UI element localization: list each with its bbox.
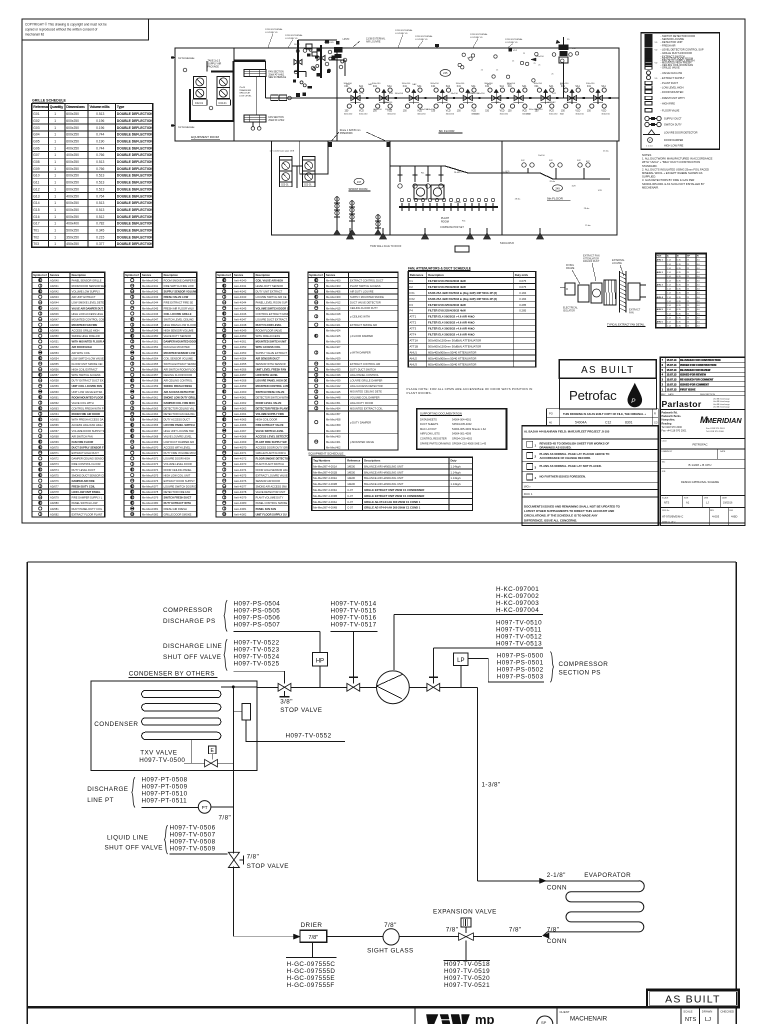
svg-text:FAN HIGH MOUNTED: FAN HIGH MOUNTED	[164, 345, 190, 349]
svg-text:Me-MecA/048: Me-MecA/048	[142, 323, 159, 327]
svg-text:AL BAJAH 444 BAHRAIN FIELD: M: AL BAJAH 444 BAHRAIN FIELD: MARJUFLEET P…	[524, 430, 610, 434]
svg-text:DAMPER AIR FIRE: DAMPER AIR FIRE	[72, 479, 95, 483]
svg-text:H097-TV-0507: H097-TV-0507	[170, 831, 216, 838]
svg-text:AeA-4/069: AeA-4/069	[234, 440, 247, 444]
svg-text:Symbol ref: Symbol ref	[125, 273, 139, 277]
svg-text:AD/081: AD/081	[50, 507, 59, 511]
svg-text:H097-TV-0510: H097-TV-0510	[496, 620, 542, 627]
svg-text:350x250: 350x250	[66, 235, 79, 239]
svg-text:300x150: 300x150	[387, 113, 396, 115]
svg-text:VALVE AIR DAMPER DUT: VALVE AIR DAMPER DUT	[72, 306, 104, 310]
svg-text:300x150: 300x150	[586, 83, 595, 85]
svg-text:Me-MecA/058: Me-MecA/058	[142, 379, 159, 383]
wire HP switch to pipe	[319, 666, 321, 687]
svg-text:19/02/16: 19/02/16	[723, 502, 733, 505]
svg-text:AD/052: AD/052	[50, 345, 59, 349]
svg-text:Me-MecA/070: Me-MecA/070	[142, 446, 159, 450]
svg-text:FAN: FAN	[657, 255, 662, 258]
svg-text:0.35: 0.35	[677, 305, 682, 307]
svg-text:Padworth Rd.: Padworth Rd.	[662, 412, 678, 415]
svg-text:COMPRESSOR: COMPRESSOR	[163, 607, 213, 614]
svg-text:0.513: 0.513	[96, 208, 104, 212]
svg-text:50x150: 50x150	[454, 202, 461, 204]
svg-text:SWITCH LEVEL CEILING: SWITCH LEVEL CEILING	[164, 317, 194, 321]
zone reference oval upper	[440, 70, 450, 77]
svg-text:AT-970/BVE/M-C: AT-970/BVE/M-C	[662, 515, 683, 519]
svg-text:Me-MecA/054: Me-MecA/054	[142, 356, 159, 360]
svg-text:AeA-4/070: AeA-4/070	[234, 446, 247, 450]
svg-text:Tel 0118 970 2000: Tel 0118 970 2000	[662, 426, 683, 429]
svg-text:15.07.13: 15.07.13	[667, 388, 677, 391]
svg-text:Fax 0118 970 2001: Fax 0118 970 2001	[706, 428, 725, 430]
svg-text:H097-PS-0500: H097-PS-0500	[497, 653, 544, 660]
svg-text:Me-MecA/042: Me-MecA/042	[142, 290, 159, 294]
suction line valve V3	[427, 683, 433, 691]
svg-text:1/2 condensate pipe 15/8: 1/2 condensate pipe 15/8	[270, 150, 295, 153]
svg-text:5: 5	[662, 369, 664, 372]
svg-text:600x250: 600x250	[66, 126, 79, 130]
svg-text:300x150: 300x150	[402, 83, 411, 85]
svg-text:14E00: 14E00	[347, 464, 355, 468]
pressure switch HP	[312, 653, 327, 667]
svg-text:ATT2: ATT2	[410, 321, 417, 325]
svg-text:H097-PT-0508: H097-PT-0508	[142, 776, 188, 783]
svg-text:- VALVE FAN LOW: - VALVE FAN LOW	[661, 71, 683, 75]
wire condenser internal drop	[232, 687, 234, 771]
svg-text:45004-005: 45004-005	[324, 42, 334, 44]
svg-text:DAMPER MOUNTED DOOR: DAMPER MOUNTED DOOR	[164, 340, 198, 344]
equipment room thick ducts	[190, 89, 234, 121]
svg-text:25: 25	[687, 268, 690, 270]
svg-text:Me-MecA/081: Me-MecA/081	[142, 507, 159, 511]
svg-text:DOUBLE DEFLECTION: DOUBLE DEFLECTION	[117, 126, 154, 130]
svg-text:A: A	[667, 255, 669, 258]
svg-text:copied or reproduced without t: copied or reproduced without the written…	[25, 28, 97, 32]
svg-text:GRILLE AE-074-04 AH 300 25kW C: GRILLE AE-074-04 AH 300 25kW C1 COND 1	[364, 506, 421, 510]
wire leader KC labels to compressor	[393, 615, 395, 670]
svg-text:12/38 EXTERNAL: 12/38 EXTERNAL	[505, 38, 523, 41]
svg-text:7/8": 7/8"	[446, 926, 459, 933]
svg-text:Petrofac: Petrofac	[569, 388, 617, 403]
svg-text:Me-Mec097-4-004A: Me-Mec097-4-004A	[313, 500, 337, 504]
svg-text:6: 6	[662, 364, 664, 367]
svg-text:mechanair ltd: mechanair ltd	[25, 33, 44, 37]
svg-text:LOUVRE VD: LOUVRE VD	[265, 32, 278, 34]
pipe expansion valve to evaporator outlet	[473, 936, 542, 938]
svg-text:0.512: 0.512	[96, 215, 104, 219]
svg-text:0.35: 0.35	[677, 293, 682, 295]
svg-text:Me-MecA/077: Me-MecA/077	[142, 484, 159, 488]
svg-text:LOUVRE DUCT EXTRACT: LOUVRE DUCT EXTRACT	[256, 317, 288, 321]
svg-text:1: 1	[54, 126, 56, 130]
svg-text:G04: G04	[33, 133, 39, 137]
svg-text:H-GC-097555C: H-GC-097555C	[287, 961, 336, 968]
svg-text:FILTER EV8 225/4/20/32 4kW: FILTER EV8 225/4/20/32 4kW	[428, 309, 466, 313]
svg-text:SA1: SA1	[549, 85, 554, 88]
svg-text:DATE: DATE	[720, 450, 726, 453]
svg-text:AeA-4/079: AeA-4/079	[234, 496, 247, 500]
main plant enclosure box	[175, 48, 619, 141]
svg-text:AD/048: AD/048	[50, 323, 59, 327]
node evaporator outlet conn arrow	[543, 933, 550, 938]
svg-text:150: 150	[345, 111, 350, 113]
svg-text:25: 25	[687, 322, 690, 324]
svg-text:PLANT SWITCH ACCESS: PLANT SWITCH ACCESS	[350, 284, 381, 288]
svg-text:GRILLE PLANT FLOOR A: GRILLE PLANT FLOOR A	[256, 451, 286, 455]
svg-text:A1: A1	[686, 501, 690, 505]
svg-text:H097-PT-0509: H097-PT-0509	[142, 783, 188, 790]
svg-text:PT: PT	[202, 805, 208, 810]
svg-text:AeA-4/041: AeA-4/041	[234, 284, 247, 288]
svg-text:CONTROL FRESH WITH P: CONTROL FRESH WITH P	[72, 407, 104, 411]
svg-text:4.0: 4.0	[697, 260, 701, 262]
svg-text:Me-MecA/041: Me-MecA/041	[142, 284, 159, 288]
svg-text:SMOKE LOW DUTY GRILL: SMOKE LOW DUTY GRILL	[164, 395, 197, 399]
svg-text:G03: G03	[33, 126, 39, 130]
svg-text:25: 25	[523, 53, 525, 55]
svg-text:600x250: 600x250	[66, 133, 79, 137]
svg-text:1: 1	[54, 242, 56, 246]
svg-text:AD/063: AD/063	[50, 407, 59, 411]
svg-text:H-GC-097555E: H-GC-097555E	[287, 975, 335, 982]
svg-text:SA1: SA1	[500, 85, 505, 88]
svg-text:0.513: 0.513	[96, 112, 104, 116]
svg-text:WITH MOUNTED FLOOR A: WITH MOUNTED FLOOR A	[72, 340, 105, 344]
svg-text:EXTRACT LOUVRE VALVE: EXTRACT LOUVRE VALVE	[256, 473, 288, 477]
svg-text:C-07: C-07	[347, 488, 353, 492]
svg-text:TRANSFER: TRANSFER	[239, 89, 251, 92]
svg-text:FIRST ISSUE: FIRST ISSUE	[680, 388, 696, 391]
svg-text:EXTRACT DOOR SUPPLY: EXTRACT DOOR SUPPLY	[164, 479, 196, 483]
svg-text:AS BUILT: AS BUILT	[665, 994, 721, 1006]
svg-text:Me-MecA/052: Me-MecA/052	[142, 345, 159, 349]
svg-text:Me-Mec/445: Me-Mec/445	[326, 390, 341, 394]
svg-text:Me-Mec097-4-001B: Me-Mec097-4-001B	[313, 470, 337, 474]
svg-text:Description: Description	[428, 273, 444, 277]
svg-text:FIRE EXTRACT VALVE: FIRE EXTRACT VALVE	[256, 423, 284, 427]
svg-text:DRAWINGS AS ISSUED.: DRAWINGS AS ISSUED.	[540, 445, 572, 449]
svg-text:1: 1	[54, 229, 56, 233]
svg-text:1: 1	[54, 187, 56, 191]
svg-text:4: 4	[535, 476, 537, 480]
svg-text:COIL SENSOR VOLUME: COIL SENSOR VOLUME	[164, 356, 194, 360]
svg-text:VD2: VD2	[513, 50, 518, 52]
svg-text:MECHENAIR.: MECHENAIR.	[642, 185, 659, 189]
svg-text:SWITCH FRESH DUCT: SWITCH FRESH DUCT	[164, 496, 192, 500]
svg-text:H097-PS-0501: H097-PS-0501	[497, 660, 544, 667]
symbol table 2	[124, 272, 198, 517]
svg-text:FAN SECTION: FAN SECTION	[268, 116, 284, 119]
svg-text:AD/055: AD/055	[50, 362, 59, 366]
wire LP switch to pipe	[460, 666, 462, 688]
svg-text:COIL LOUVRE GRILLE: COIL LOUVRE GRILLE	[164, 312, 192, 316]
svg-text:PETROFAC: PETROFAC	[692, 442, 707, 446]
svg-text:HIGH UNIT LOUVRE SWI: HIGH UNIT LOUVRE SWI	[164, 429, 194, 433]
svg-text:1.14: 1.14	[667, 280, 672, 282]
svg-text:PANEL CONTROL SMOKE: PANEL CONTROL SMOKE	[256, 501, 288, 505]
svg-text:F41: F41	[457, 86, 462, 88]
svg-text:Me-Mec/421: Me-Mec/421	[326, 323, 341, 327]
svg-text:DOUBLE DEFLECTION: DOUBLE DEFLECTION	[117, 235, 154, 239]
svg-text:CONDENSER BY OTHERS: CONDENSER BY OTHERS	[129, 671, 215, 678]
svg-text:28 dia: 28 dia	[584, 208, 590, 210]
svg-text:F41: F41	[462, 220, 466, 222]
symbol table 1	[32, 272, 106, 517]
svg-text:H-GC-097555D: H-GC-097555D	[287, 968, 336, 975]
svg-text:EXTRACT HIGH DUCT: EXTRACT HIGH DUCT	[72, 451, 100, 455]
svg-text:C02-01: C02-01	[195, 102, 204, 105]
petrofac drop logo	[628, 384, 642, 407]
svg-text:COPYRIGHT © This drawing is co: COPYRIGHT © This drawing is copyright an…	[25, 23, 107, 27]
svg-text:F41: F41	[552, 93, 557, 95]
svg-text:AD/070: AD/070	[50, 446, 59, 450]
svg-text:MOUNTED CEILING DETE: MOUNTED CEILING DETE	[350, 390, 382, 394]
svg-text:BALANCE AIR HANDLING UNIT: BALANCE AIR HANDLING UNIT	[364, 476, 404, 480]
svg-text:H097-TV-0516: H097-TV-0516	[331, 615, 377, 622]
svg-text:T02: T02	[33, 235, 39, 239]
svg-text:Reading: Reading	[662, 422, 672, 425]
svg-text:DOUBLE DEFLECTION: DOUBLE DEFLECTION	[117, 215, 154, 219]
svg-text:1/2 Condensate: 1/2 Condensate	[178, 57, 195, 60]
copyright note box	[22, 19, 149, 40]
svg-text:25: 25	[467, 58, 469, 60]
svg-text:SA1: SA1	[601, 85, 606, 88]
svg-text:F41: F41	[535, 86, 540, 88]
svg-text:CO: CO	[654, 422, 658, 425]
wire leader TV0522 group to stop valve	[234, 670, 285, 672]
svg-text:1.14kg/s: 1.14kg/s	[451, 482, 462, 486]
svg-text:LOUVRE DOOR HIGH: LOUVRE DOOR HIGH	[164, 457, 191, 461]
svg-text:DOUBLE DEFLECTION: DOUBLE DEFLECTION	[117, 194, 154, 198]
label group H097-TV-0514 group	[331, 601, 378, 632]
svg-text:- HIGH FIRE: - HIGH FIRE	[661, 101, 676, 105]
svg-text:F41: F41	[403, 86, 408, 88]
svg-text:AD/044: AD/044	[50, 301, 59, 305]
svg-text:Me-Mec/425: Me-Mec/425	[326, 334, 341, 338]
svg-text:FIRE CONTROL FLOOR: FIRE CONTROL FLOOR	[72, 462, 101, 466]
svg-text:SP004-005-4002: SP004-005-4002	[452, 422, 472, 426]
svg-text:- LEVEL DETECTOR CONTROL SUP: - LEVEL DETECTOR CONTROL SUP	[661, 47, 704, 51]
svg-text:AeA-4/071: AeA-4/071	[234, 451, 247, 455]
svg-text:AD/067: AD/067	[50, 429, 59, 433]
svg-text:DISCHARGE: DISCHARGE	[87, 786, 128, 793]
svg-text:H097-TV-0524: H097-TV-0524	[234, 654, 280, 661]
svg-text:DETECTOR SWITCH WITH: DETECTOR SWITCH WITH	[256, 395, 289, 399]
svg-text:AeA-4/049: AeA-4/049	[234, 329, 247, 333]
svg-text:1.14: 1.14	[667, 297, 672, 299]
svg-text:HIGH PANEL CONTROL: HIGH PANEL CONTROL	[350, 373, 379, 377]
svg-text:AD/046: AD/046	[50, 312, 59, 316]
svg-text:Me-MecA/063: Me-MecA/063	[142, 407, 159, 411]
svg-text:Me-Mec/415: Me-Mec/415	[326, 306, 341, 310]
svg-text:0.35: 0.35	[677, 322, 682, 324]
svg-text:AD/065: AD/065	[50, 418, 59, 422]
svg-text:FRESH AIR FLOOR VALV: FRESH AIR FLOOR VALV	[164, 306, 195, 310]
svg-text:DUCT VALVE DETECTOR: DUCT VALVE DETECTOR	[350, 301, 381, 305]
svg-text:0.345: 0.345	[96, 229, 104, 233]
svg-text:1: 1	[54, 201, 56, 205]
svg-text:0.513: 0.513	[96, 174, 104, 178]
svg-text:Me-MecA/073: Me-MecA/073	[142, 462, 159, 466]
svg-text:Reference: Reference	[347, 459, 361, 463]
svg-text:UNIT LEVEL FRESH FAN: UNIT LEVEL FRESH FAN	[256, 368, 287, 372]
svg-text:1: 1	[54, 153, 56, 157]
svg-text:VOLUME SWITCH DOOR C: VOLUME SWITCH DOOR C	[256, 306, 289, 310]
svg-text:H097-TV-0511: H097-TV-0511	[496, 627, 542, 634]
svg-text:REV: REV	[710, 510, 715, 512]
svg-text:FILTER EL4 30/25/32 +4.6 AIR: FILTER EL4 30/25/32 +4.6 AIR 40kO	[428, 327, 475, 331]
svg-text:F4: F4	[410, 309, 414, 313]
pump units	[414, 185, 427, 199]
svg-text:7/8": 7/8"	[308, 935, 318, 941]
svg-text:54004A: 54004A	[575, 421, 587, 425]
svg-text:2. ALL DUCTS INSULATED USING 2: 2. ALL DUCTS INSULATED USING 25mm FOIL F…	[642, 167, 709, 171]
svg-text:ROOM SMOKE DAMPER EX: ROOM SMOKE DAMPER EX	[164, 278, 198, 282]
grille schedule table	[32, 99, 154, 248]
svg-text:1: 1	[54, 194, 56, 198]
svg-text:1: 1	[54, 174, 56, 178]
svg-text:HIGH FRESH LOW FLOOR: HIGH FRESH LOW FLOOR	[164, 323, 196, 327]
svg-text:CONN: CONN	[547, 885, 567, 892]
label group compressor discharge PS	[163, 600, 280, 631]
svg-text:EXTRACT CONTROL AIR: EXTRACT CONTROL AIR	[350, 362, 380, 366]
svg-text:AD/058: AD/058	[50, 379, 59, 383]
svg-text:Me-Mec/454: Me-Mec/454	[326, 407, 341, 411]
svg-text:F41: F41	[587, 86, 592, 88]
svg-text:AeA-4/059: AeA-4/059	[234, 384, 247, 388]
svg-text:1.14: 1.14	[667, 260, 672, 262]
svg-text:AD/073: AD/073	[50, 462, 59, 466]
svg-text:25: 25	[687, 297, 690, 299]
pipe riser to evaporator inlet	[478, 880, 639, 882]
wire leader TV0506 labels to stop valve	[170, 853, 228, 855]
svg-text:C03-01: C03-01	[281, 185, 289, 187]
svg-text:DUTY FIRE VOLUME MOU: DUTY FIRE VOLUME MOU	[164, 451, 196, 455]
svg-text:AeA-4/066: AeA-4/066	[234, 423, 247, 427]
svg-text:CHECKED: CHECKED	[720, 1010, 734, 1014]
svg-text:12/38 EXTERNAL: 12/38 EXTERNAL	[285, 34, 303, 37]
svg-text:150 dia: 150 dia	[385, 109, 393, 111]
svg-text:AeA-4/045: AeA-4/045	[234, 306, 247, 310]
svg-text:500x600x1200mm 50dB(A) ATTENUA: 500x600x1200mm 50dB(A) ATTENUATOR	[428, 345, 481, 349]
svg-text:DRN: DRN	[704, 498, 709, 500]
svg-text:VOLUME COIL DAMPER: VOLUME COIL DAMPER	[350, 395, 380, 399]
svg-text:400x400: 400x400	[66, 222, 79, 226]
svg-text:8301: 8301	[625, 421, 633, 425]
svg-text:AeA-4/080: AeA-4/080	[234, 501, 247, 505]
svg-text:LJ: LJ	[706, 501, 709, 505]
svg-text:3: 3	[662, 379, 664, 382]
svg-text:DUCT SUPPLY SENSOR F: DUCT SUPPLY SENSOR F	[72, 446, 104, 450]
svg-text:Me-Mec097-4-002A: Me-Mec097-4-002A	[313, 476, 337, 480]
svg-text:600x250: 600x250	[66, 201, 79, 205]
svg-text:25: 25	[687, 272, 690, 274]
svg-text:AeA-4/042: AeA-4/042	[234, 290, 247, 294]
expansion valve EV1	[459, 933, 474, 940]
svg-text:WITH FRESH ACCESS DA: WITH FRESH ACCESS DA	[72, 418, 104, 422]
svg-text:0.196: 0.196	[96, 126, 104, 130]
svg-text:Me-Mec/460: Me-Mec/460	[326, 434, 341, 438]
svg-text:VCD: VCD	[598, 190, 603, 192]
svg-text:Me-MecA/074: Me-MecA/074	[142, 468, 159, 472]
svg-text:p DUTY DAMPER: p DUTY DAMPER	[350, 420, 371, 424]
svg-text:AD/074: AD/074	[50, 468, 59, 472]
svg-text:AeA-4/060: AeA-4/060	[234, 390, 247, 394]
svg-text:600x250: 600x250	[66, 208, 79, 212]
svg-text:LOW WITH LEVEL: LOW WITH LEVEL	[256, 373, 279, 377]
svg-text:150: 150	[485, 111, 490, 113]
svg-text:AD/041: AD/041	[50, 284, 59, 288]
svg-text:SMOKE HIGH FIRE AIR: SMOKE HIGH FIRE AIR	[72, 334, 100, 338]
svg-text:AeA-4/058: AeA-4/058	[234, 379, 247, 383]
svg-text:Me-MecA/059: Me-MecA/059	[142, 384, 159, 388]
svg-text:H097-TV-0517: H097-TV-0517	[331, 621, 377, 628]
svg-text:0.184: 0.184	[519, 297, 526, 301]
svg-text:VCD: VCD	[359, 93, 364, 95]
svg-text:DIFFERENCE, ISSUE ALL CONCERNS: DIFFERENCE, ISSUE ALL CONCERNS.	[524, 518, 577, 522]
svg-text:4.0: 4.0	[697, 272, 701, 274]
svg-text:AeA-4/061: AeA-4/061	[234, 395, 247, 399]
wire riser valve V3 to TV0510 labels	[432, 648, 434, 678]
svg-text:AD/082: AD/082	[50, 512, 59, 516]
svg-text:VCD: VCD	[522, 111, 527, 113]
svg-text:Volume m3/s: Volume m3/s	[90, 105, 109, 109]
svg-text:MOUNTED CONTROL LOW: MOUNTED CONTROL LOW	[256, 384, 290, 388]
svg-text:300x150: 300x150	[384, 102, 393, 104]
pipe V3 to corner	[440, 686, 478, 688]
svg-text:AeA-4/062: AeA-4/062	[234, 401, 247, 405]
svg-text:ISSUED FOR CONSTRUCTION: ISSUED FOR CONSTRUCTION	[680, 364, 716, 367]
svg-text:AD/078: AD/078	[50, 490, 59, 494]
pressure switch LP	[454, 653, 469, 666]
svg-text:VCD: VCD	[526, 114, 531, 116]
svg-text:WITH SWITCH ACCESS: WITH SWITCH ACCESS	[72, 373, 101, 377]
pipe V1 to V2	[291, 686, 347, 688]
middle compartment piping	[390, 166, 610, 179]
svg-text:600x400x900mm 50/40 ATTENUATOR: 600x400x900mm 50/40 ATTENUATOR	[428, 356, 476, 360]
svg-text:50x150: 50x150	[538, 155, 545, 157]
svg-text:AD/059: AD/059	[50, 384, 59, 388]
svg-text:ACCESS HIGH FAN HIGH: ACCESS HIGH FAN HIGH	[72, 423, 103, 427]
svg-text:- FRESH UNIT WITH: - FRESH UNIT WITH	[661, 96, 685, 100]
svg-text:25kW AT-AHU2: 25kW AT-AHU2	[268, 119, 285, 122]
svg-text:HIGH DUTY ROOM: HIGH DUTY ROOM	[350, 401, 373, 405]
svg-text:SHUT OFF VALVE: SHUT OFF VALVE	[163, 654, 221, 661]
svg-text:PANEL SENSOR GRILLE: PANEL SENSOR GRILLE	[72, 278, 102, 282]
svg-text:F41: F41	[485, 86, 490, 88]
svg-text:Symbol ref: Symbol ref	[309, 273, 323, 277]
svg-text:4.0: 4.0	[697, 293, 701, 295]
svg-text:0.075: 0.075	[519, 285, 526, 289]
svg-text:Me-MecA/044: Me-MecA/044	[142, 301, 159, 305]
svg-text:1.14kg/s: 1.14kg/s	[451, 470, 462, 474]
svg-text:DRIER: DRIER	[301, 922, 323, 929]
svg-text:ISSUED FOR REVIEW: ISSUED FOR REVIEW	[680, 374, 706, 377]
svg-text:SA2: SA2	[560, 113, 565, 116]
svg-text:Quantity: Quantity	[50, 105, 63, 109]
svg-text:G02: G02	[33, 119, 39, 123]
evaporator coil serpentine	[544, 881, 645, 935]
svg-text:SCALE: SCALE	[683, 1010, 692, 1014]
svg-text:FAN SECTION: FAN SECTION	[268, 71, 284, 74]
svg-text:25: 25	[481, 70, 483, 72]
svg-text:Me-MecA/046: Me-MecA/046	[142, 312, 159, 316]
svg-text:1-3/8": 1-3/8"	[482, 781, 501, 788]
inline fan boxes on main line	[271, 95, 279, 101]
sight glass SG1	[383, 929, 399, 945]
sheet 1 border frame	[22, 19, 745, 523]
svg-text:AeA-4/064: AeA-4/064	[234, 412, 247, 416]
